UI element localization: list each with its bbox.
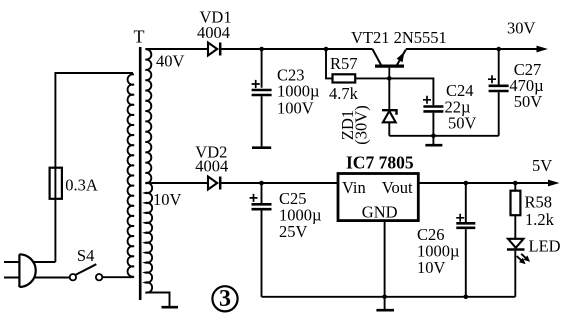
arrow 30V — [537, 46, 549, 53]
diode VD2 — [208, 177, 220, 190]
5V rail — [418, 182, 548, 184]
wire switch to primary bottom — [102, 276, 134, 279]
wire riser to transformer primary top — [55, 73, 133, 262]
wire tap to VD2 — [145, 182, 207, 184]
svg-text:IC7 7805: IC7 7805 — [346, 152, 414, 172]
wire C23 branch — [261, 49, 263, 88]
switch S4 — [70, 264, 103, 280]
svg-text:3: 3 — [219, 286, 231, 312]
svg-text:40V: 40V — [156, 52, 185, 71]
30V rail — [406, 48, 537, 50]
node C26 top — [464, 181, 469, 186]
GND pin wire — [384, 221, 386, 297]
svg-text:5V: 5V — [532, 156, 552, 175]
diode VD1 — [208, 43, 220, 56]
ground (C23) — [252, 146, 271, 149]
svg-text:R58: R58 — [525, 193, 553, 212]
node R57 top — [324, 47, 329, 52]
transformer T secondary winding lower 10V — [145, 183, 152, 293]
capacitor C23 — [252, 80, 272, 95]
node R58 top — [513, 181, 518, 186]
svg-text:1.2k: 1.2k — [525, 210, 555, 229]
resistor R57 — [333, 74, 356, 82]
svg-text:S4: S4 — [77, 246, 94, 265]
resistor R58 — [511, 183, 521, 238]
transformer T primary winding — [128, 74, 134, 276]
wire R57 branch — [326, 49, 333, 78]
node ground C24 — [431, 134, 436, 139]
svg-text:10V: 10V — [153, 190, 182, 209]
svg-text:LED: LED — [529, 237, 561, 256]
wire R57 to base node — [355, 77, 389, 79]
LED D1 — [507, 239, 530, 297]
node GND pin — [382, 295, 387, 300]
node C26 bottom — [464, 295, 469, 300]
svg-text:10V: 10V — [417, 258, 446, 277]
wire secondary top to VD1 — [145, 48, 207, 50]
svg-text:GND: GND — [362, 203, 398, 222]
transformer core — [139, 47, 142, 300]
wire base node to C24 — [389, 78, 433, 105]
svg-text:R57: R57 — [330, 54, 358, 73]
svg-text:30V: 30V — [507, 19, 536, 38]
fuse F 0.3A — [50, 168, 62, 199]
secondary bottom wire to ground — [145, 293, 169, 307]
svg-text:0.3A: 0.3A — [65, 175, 98, 194]
bottom wire of 30V section — [389, 135, 498, 137]
svg-text:T: T — [134, 27, 145, 47]
wire C24 to bottom — [432, 113, 434, 136]
svg-text:4.7k: 4.7k — [329, 84, 359, 103]
svg-text:50V: 50V — [448, 114, 477, 133]
transformer T secondary winding upper 40V — [145, 49, 151, 183]
svg-text:VT21 2N5551: VT21 2N5551 — [351, 28, 447, 47]
node C25 top — [259, 181, 264, 186]
ground (main) — [376, 297, 394, 310]
wire plug to fuse riser — [33, 261, 55, 263]
svg-text:Vin: Vin — [342, 178, 366, 197]
IC U7805 box — [338, 174, 418, 221]
ground (secondary) — [162, 306, 179, 309]
circled 3 — [212, 286, 237, 312]
svg-text:Vout: Vout — [382, 178, 413, 197]
zener ZD1 — [382, 78, 397, 135]
capacitor C25 — [250, 183, 272, 297]
svg-text:100V: 100V — [277, 98, 314, 117]
capacitor C26 — [456, 183, 475, 297]
svg-text:(30V): (30V) — [352, 105, 371, 144]
wire C23 to ground — [261, 96, 263, 146]
capacitor C27 — [488, 49, 509, 136]
ground (C24 node) — [425, 136, 442, 145]
arrow 5V — [548, 180, 560, 187]
wire VD2 to IC — [221, 182, 338, 184]
node C23 top — [259, 47, 264, 52]
plug P1 — [4, 254, 36, 287]
wire VD1 to collector — [221, 48, 372, 50]
wire plug to switch — [34, 277, 69, 279]
svg-text:25V: 25V — [279, 222, 308, 241]
node base — [387, 76, 392, 81]
svg-text:4004: 4004 — [195, 157, 228, 176]
capacitor C24 — [423, 96, 443, 112]
bottom ground rail — [262, 296, 516, 298]
svg-text:50V: 50V — [514, 92, 543, 111]
node C27 top — [496, 47, 501, 52]
svg-text:4004: 4004 — [197, 23, 230, 42]
transistor VT21 — [372, 49, 405, 78]
